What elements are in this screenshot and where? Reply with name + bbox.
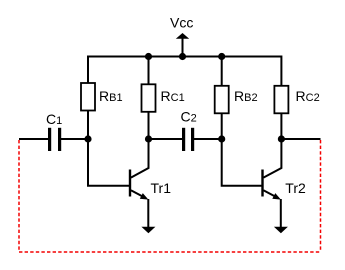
transistor Tr1 [130, 139, 149, 228]
wire RC1 column [148, 57, 150, 140]
wire C1 to base node [61, 138, 88, 140]
svg-text:Tr1: Tr1 [151, 180, 172, 196]
transistor Tr2 [263, 139, 282, 228]
resistor RC1 [142, 84, 156, 112]
power Vcc symbol [176, 33, 189, 57]
resistor RB2 [215, 86, 229, 114]
node C1-RB1-base junction [84, 135, 91, 142]
wire C2 to RB2 node [194, 138, 222, 140]
resistor RC2 [274, 86, 288, 114]
wire RB2 column [221, 57, 223, 140]
wire RC1 node to C2 [149, 138, 183, 140]
wire RC2 node to feedback output [281, 138, 320, 140]
ground below Tr2 [274, 227, 288, 234]
ground below Tr1 [141, 227, 155, 234]
wire feedback right dashed [320, 140, 322, 252]
wire feedback input to C1 [19, 138, 48, 140]
wire RB2 node down and right to Tr2 base [222, 139, 262, 186]
node RC1-collector-C2 junction [145, 135, 152, 142]
node RC2-collector-feedback junction [278, 135, 285, 142]
node rail-RC1 junction [145, 53, 152, 60]
wire base node down and right to Tr1 base [88, 139, 129, 186]
wire top Vcc rail [88, 57, 281, 140]
node C2-RB2-base junction [218, 135, 225, 142]
capacitor C2 [184, 128, 193, 151]
node rail-Vcc junction [179, 53, 186, 60]
svg-text:Vcc: Vcc [170, 15, 193, 31]
wire feedback bottom dashed [19, 251, 321, 253]
resistor RB1 [81, 83, 95, 111]
capacitor C1 [50, 128, 60, 151]
node rail-RB2 junction [218, 53, 225, 60]
svg-text:Tr2: Tr2 [285, 180, 306, 196]
wire feedback left dashed [18, 140, 20, 252]
